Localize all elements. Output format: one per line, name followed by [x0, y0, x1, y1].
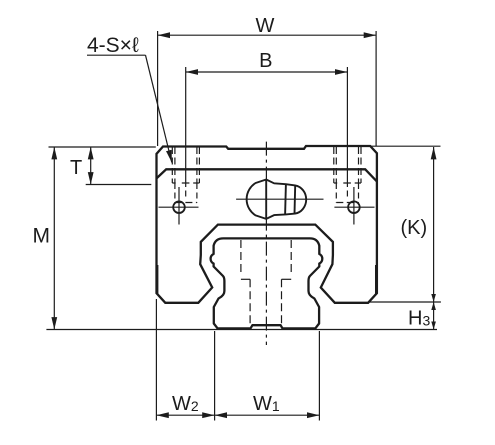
svg-text:W1: W1	[253, 393, 280, 415]
right ball	[348, 201, 360, 213]
vertical centerline	[265, 142, 267, 345]
right tapped hole dashed walls	[334, 147, 361, 203]
dimension T	[86, 147, 152, 185]
right edge reinforcement lower	[375, 265, 377, 294]
dimension B	[186, 67, 348, 197]
svg-text:H3: H3	[408, 308, 430, 330]
svg-text:T: T	[70, 157, 82, 179]
grease nipple	[247, 180, 307, 219]
dimension M	[46, 147, 437, 330]
right ball crosshair	[334, 206, 374, 208]
block outer outline	[157, 146, 377, 303]
svg-text:4-S×ℓ: 4-S×ℓ	[87, 34, 139, 57]
svg-text:W2: W2	[172, 393, 199, 415]
dimension H3	[433, 302, 435, 330]
dimension W	[158, 31, 377, 146]
dimension W2	[156, 299, 214, 421]
left ball	[173, 201, 185, 213]
svg-text:B: B	[259, 50, 272, 72]
dimension W1	[215, 331, 320, 421]
dimension (K)	[368, 146, 441, 302]
left tapped hole dashed walls	[172, 147, 199, 203]
svg-text:(K): (K)	[401, 217, 428, 239]
left ball crosshair	[159, 206, 199, 208]
nipple horizontal centerline	[236, 198, 323, 200]
hidden rail bolt hole dashes	[241, 240, 291, 326]
inner rail-shaped contour	[211, 238, 323, 328]
left edge reinforcement lower	[157, 265, 159, 294]
svg-text:W: W	[256, 15, 275, 37]
seam line (top plate edge)	[157, 169, 377, 181]
svg-text:M: M	[33, 225, 51, 248]
